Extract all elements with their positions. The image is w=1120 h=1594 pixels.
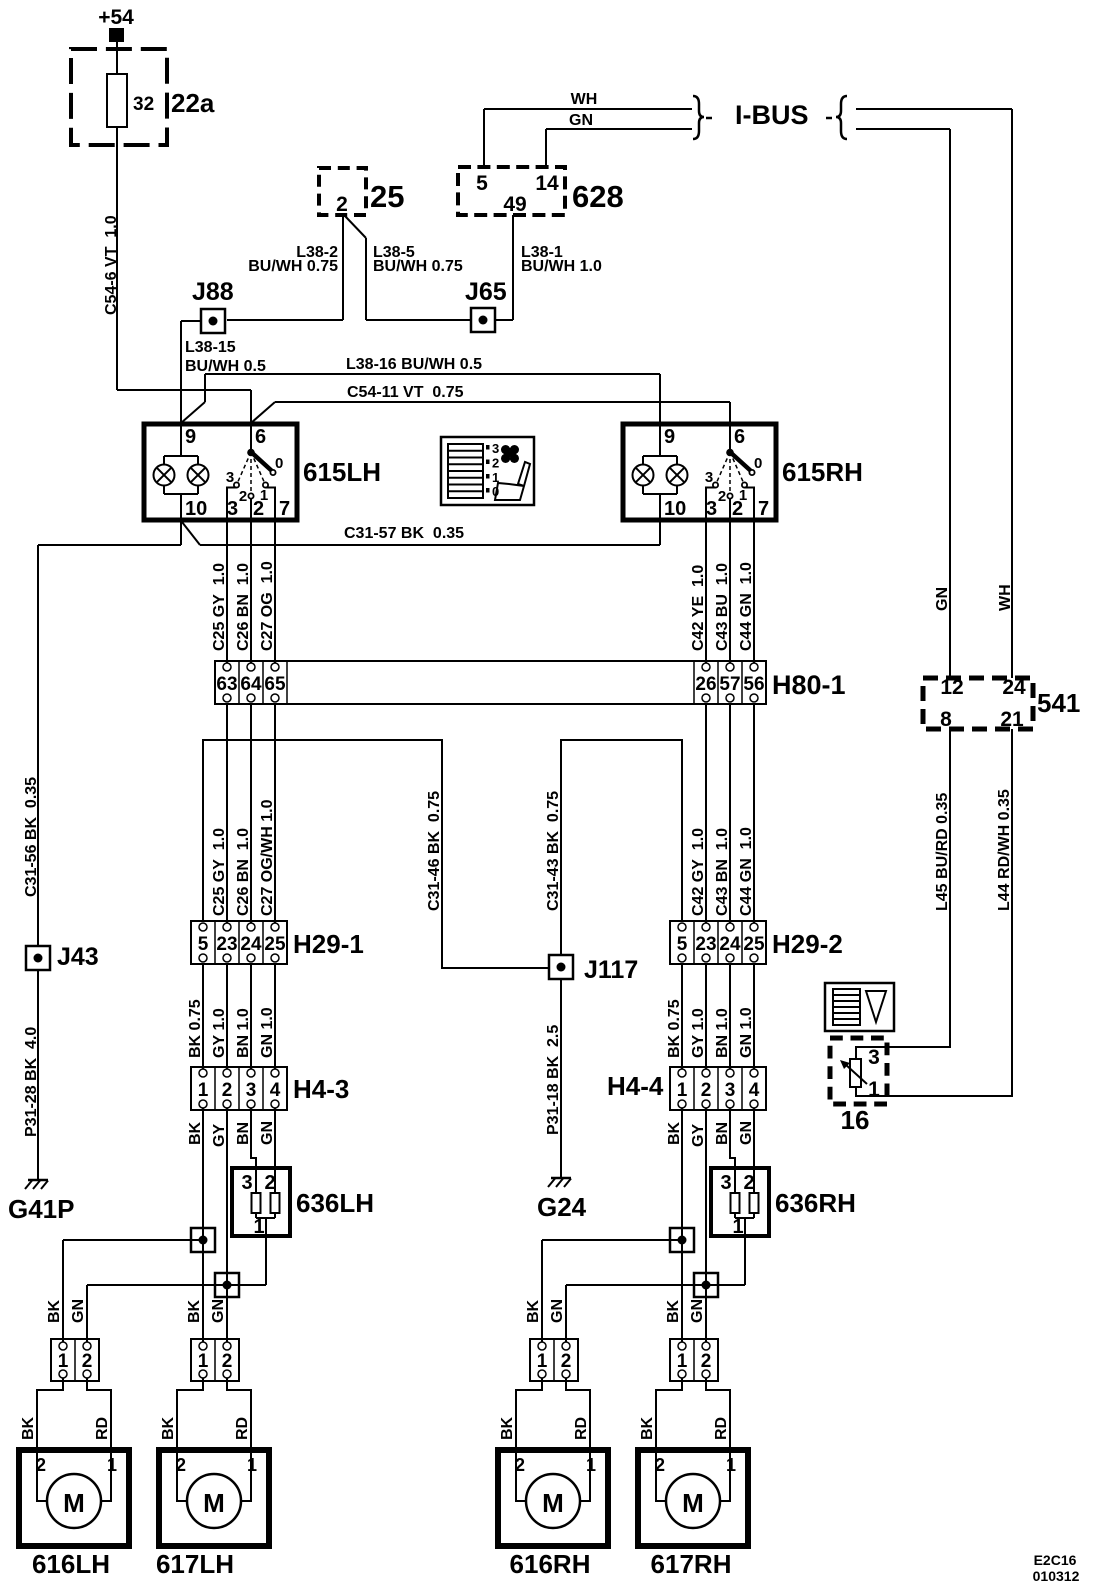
- svg-text:2: 2: [82, 1351, 93, 1372]
- rheostat sensor 16 (dashed box, pins 3 and 1): [830, 1038, 887, 1135]
- svg-text:2: 2: [701, 1351, 712, 1372]
- junction J43: [26, 943, 99, 971]
- connector H4-3 (pins 1 2 3 4): [191, 1067, 349, 1110]
- svg-text:L38-15: L38-15: [185, 339, 236, 356]
- svg-text:3: 3: [246, 1080, 257, 1101]
- svg-text:BN: BN: [235, 1122, 252, 1145]
- connector H80-1 (pins 63 64 65 / 26 57 56): [215, 661, 846, 704]
- svg-text:C26 BN 1.0: C26 BN 1.0: [235, 563, 252, 651]
- svg-text:RD: RD: [573, 1417, 590, 1440]
- svg-text:10: 10: [185, 498, 207, 520]
- wire BN from H4 pin 3 to 636RH pin 3: [730, 1108, 735, 1193]
- svg-text:3: 3: [492, 441, 499, 456]
- svg-text:GY 1.0: GY 1.0: [211, 1008, 228, 1058]
- svg-text:617RH: 617RH: [651, 1549, 732, 1579]
- wire C27 OG 1.0 from 615LH pin 7 to H80-1 pin 65: [259, 520, 276, 663]
- svg-text:P31-18 BK 2.5: P31-18 BK 2.5: [545, 1025, 562, 1135]
- ground G24: [537, 1178, 587, 1222]
- connector H29-1 (pins 5 23 24 25): [191, 921, 364, 964]
- wire C31-43 BK 0.75 from J117 to H29-2 pin 5: [545, 740, 682, 954]
- wire GY 1.0 from H29-2 to H4-4 (x=706): [690, 964, 707, 1069]
- svg-text:0: 0: [275, 455, 283, 472]
- svg-text:3: 3: [226, 469, 234, 486]
- svg-text:24: 24: [240, 934, 262, 955]
- svg-text:6: 6: [255, 426, 266, 448]
- svg-text:1: 1: [537, 1351, 548, 1372]
- svg-text:M: M: [203, 1488, 225, 1518]
- svg-text:I-BUS: I-BUS: [735, 100, 809, 130]
- svg-text:H4-4: H4-4: [607, 1071, 664, 1101]
- wire RD from connector to motor 617RH terminal 1: [706, 1378, 730, 1501]
- wire C31-56 BK 0.35 from 615LH pin 10 to J43: [23, 520, 181, 946]
- wire C26 BN 1.0 from 615LH pin 2 to H80-1 pin 64: [235, 520, 252, 663]
- lamps inside 615RH (pins 9-10): [633, 424, 688, 520]
- svg-text:3: 3: [725, 1080, 736, 1101]
- svg-text:BU/WH 0.75: BU/WH 0.75: [373, 258, 463, 275]
- svg-text:49: 49: [503, 193, 526, 216]
- svg-text:GN: GN: [689, 1299, 706, 1323]
- svg-text:J43: J43: [57, 943, 99, 971]
- ground G41P: [8, 1180, 75, 1224]
- seat fan motor 617RH: [638, 1450, 748, 1546]
- svg-text:10: 10: [664, 498, 686, 520]
- connector above motor 616RH (pins 1 2): [530, 1339, 578, 1381]
- labels BK GN above 616LH connector: [46, 1299, 87, 1323]
- heated seat switch 615LH: [144, 424, 297, 520]
- wire P31-18 BK 2.5 from J117 to ground G24: [545, 980, 562, 1177]
- svg-text:BK: BK: [186, 1299, 203, 1323]
- connector 25 (dashed box, pin 2): [319, 168, 404, 216]
- labels BK GN above 617LH connector: [186, 1299, 227, 1323]
- svg-text:3: 3: [868, 1046, 880, 1069]
- wire BN from H4 pin 3 to 636LH pin 3: [251, 1108, 256, 1193]
- icon module (level bars and triangle) above 16: [825, 983, 894, 1031]
- wire C31-57 BK 0.35 linking 615LH pin 10 and 615RH pin 10: [182, 520, 660, 545]
- svg-text:BN: BN: [714, 1122, 731, 1145]
- labels BK GN above 617RH connector: [665, 1299, 706, 1323]
- svg-text:BK: BK: [499, 1416, 516, 1440]
- svg-text:1: 1: [732, 1216, 743, 1238]
- svg-text:1: 1: [198, 1080, 209, 1101]
- svg-text:C43 BU 1.0: C43 BU 1.0: [714, 563, 731, 651]
- wire L38-2 BU/WH 0.75 from J88 to 25 pin 2: [227, 215, 343, 320]
- svg-text:1: 1: [253, 1216, 264, 1238]
- rotary switch inside 615RH (pin 6, positions 0-1-2-3): [705, 424, 763, 520]
- svg-text:2: 2: [36, 1455, 46, 1475]
- wire L38-15 BU/WH 0.5 from J88 to 615LH pin 9: [181, 321, 266, 424]
- svg-text:GY: GY: [211, 1124, 228, 1147]
- svg-text:2: 2: [336, 193, 348, 216]
- wire P31-28 BK 4.0 from J43 to ground G41P: [23, 970, 40, 1179]
- wire WH from 628 pin 5 to I-BUS: [484, 91, 692, 167]
- svg-text:+54: +54: [98, 6, 134, 29]
- svg-text:M: M: [682, 1488, 704, 1518]
- svg-text:BU/WH 0.5: BU/WH 0.5: [185, 358, 266, 375]
- svg-text:L45 BU/RD 0.35: L45 BU/RD 0.35: [934, 793, 951, 911]
- wire C43 BU 1.0 from 615RH pin 2 to H80-1 pin 57: [714, 520, 731, 663]
- svg-text:616RH: 616RH: [510, 1549, 591, 1579]
- svg-text:GN: GN: [549, 1299, 566, 1323]
- svg-text:BK: BK: [187, 1121, 204, 1145]
- svg-text:WH: WH: [571, 91, 598, 108]
- svg-text:2: 2: [718, 488, 726, 505]
- svg-text:H4-3: H4-3: [293, 1074, 349, 1104]
- wire C25 GY 1.0 from H80-1 pin 63 to H29-1 pin 23: [211, 704, 228, 923]
- connector above motor 617RH (pins 1 2): [670, 1339, 718, 1381]
- wire C25 GY 1.0 from 615LH pin 3 to H80-1 pin 63: [211, 520, 228, 663]
- svg-text:GN 1.0: GN 1.0: [738, 1007, 755, 1058]
- wire RD from connector to motor 617LH terminal 1: [227, 1378, 251, 1501]
- svg-text:5: 5: [198, 934, 209, 955]
- svg-text:1: 1: [586, 1455, 596, 1475]
- svg-text:1: 1: [107, 1455, 117, 1475]
- svg-text:2: 2: [264, 1172, 275, 1194]
- seat heating pad 636RH (pins 3 2 1, two elements): [711, 1168, 856, 1238]
- junction J117: [549, 955, 638, 984]
- svg-text:1: 1: [260, 487, 268, 504]
- lamps inside 615LH (pins 9-10): [154, 424, 209, 520]
- svg-text:3: 3: [706, 498, 717, 520]
- svg-text:2: 2: [701, 1080, 712, 1101]
- svg-text:636RH: 636RH: [775, 1188, 856, 1218]
- svg-text:65: 65: [264, 674, 286, 695]
- svg-text:GN: GN: [259, 1121, 276, 1145]
- svg-text:GN 1.0: GN 1.0: [259, 1007, 276, 1058]
- seat heating pad 636LH (pins 3 2 1, two elements): [232, 1168, 374, 1238]
- wire BK 0.75 from H29-2 to H4-4 (x=682): [666, 964, 683, 1069]
- wire BK from H4-4 pin 1 down to 617RH pin 1: [681, 1108, 683, 1342]
- seat fan motor 616LH: [19, 1450, 129, 1546]
- labels BK GY BN GN under H4-3: [187, 1121, 276, 1147]
- svg-text:BK 0.75: BK 0.75: [666, 999, 683, 1058]
- wire C42 YE 1.0 from 615RH pin 3 to H80-1 pin 26: [690, 520, 707, 663]
- connector H4-4 (pins 1 2 3 4): [607, 1067, 766, 1110]
- svg-text:26: 26: [695, 674, 716, 695]
- svg-text:23: 23: [216, 934, 237, 955]
- svg-text:BK: BK: [46, 1299, 63, 1323]
- svg-text:GY 1.0: GY 1.0: [690, 1008, 707, 1058]
- svg-text:64: 64: [240, 674, 262, 695]
- svg-text:3: 3: [227, 498, 238, 520]
- svg-text:H29-2: H29-2: [772, 929, 843, 959]
- wire GN from I-BUS to 541 pin 12: [856, 129, 951, 678]
- svg-text:3: 3: [705, 469, 713, 486]
- wire GN down to 616LH pin 2: [86, 1285, 88, 1342]
- connector above motor 616LH (pins 1 2): [51, 1339, 99, 1381]
- wire BK from connector to motor 616LH terminal 2: [20, 1378, 63, 1501]
- svg-text:636LH: 636LH: [296, 1188, 374, 1218]
- svg-text:BU/WH 1.0: BU/WH 1.0: [521, 258, 602, 275]
- svg-text:1: 1: [726, 1455, 736, 1475]
- wire GY from H4-3 pin 2 down to 617LH pin 2: [226, 1108, 228, 1342]
- svg-text:1: 1: [58, 1351, 69, 1372]
- svg-text:BK: BK: [160, 1416, 177, 1440]
- svg-text:C31-46 BK 0.75: C31-46 BK 0.75: [426, 791, 443, 911]
- junction J65: [465, 278, 507, 332]
- svg-text:1: 1: [739, 487, 747, 504]
- svg-text:32: 32: [133, 94, 154, 115]
- svg-text:G24: G24: [537, 1192, 587, 1222]
- svg-text:2: 2: [176, 1455, 186, 1475]
- svg-text:L38-16 BU/WH 0.5: L38-16 BU/WH 0.5: [346, 356, 482, 373]
- wire C42 GY 1.0 from H80-1 pin 26 to H29-2 pin 23: [690, 704, 707, 923]
- svg-text:2: 2: [222, 1080, 233, 1101]
- svg-text:617LH: 617LH: [156, 1549, 234, 1579]
- svg-text:C44 GN 1.0: C44 GN 1.0: [738, 562, 755, 651]
- svg-text:22a: 22a: [171, 88, 215, 118]
- svg-text:C31-57 BK 0.35: C31-57 BK 0.35: [344, 525, 464, 542]
- svg-text:BK: BK: [20, 1416, 37, 1440]
- junction GN row (right): [566, 1273, 745, 1297]
- svg-text:GN: GN: [70, 1299, 87, 1323]
- connector 628 (dashed box, pins 5, 14, 49): [458, 167, 624, 216]
- svg-text:GN: GN: [738, 1121, 755, 1145]
- svg-text:RD: RD: [234, 1417, 251, 1440]
- svg-text:616LH: 616LH: [32, 1549, 110, 1579]
- svg-text:P31-28 BK 4.0: P31-28 BK 4.0: [23, 1027, 40, 1137]
- svg-text:25: 25: [264, 934, 286, 955]
- wire GY 1.0 from H29-1 to H4-3 (x=227): [211, 964, 228, 1069]
- connector 541 (dashed box, pins 12 24 / 8 21): [923, 676, 1080, 731]
- svg-text:J117: J117: [584, 956, 638, 984]
- heated seat switch 615RH: [623, 424, 776, 520]
- svg-text:C54-6 VT 1.0: C54-6 VT 1.0: [103, 215, 120, 315]
- svg-text:25: 25: [743, 934, 765, 955]
- svg-text:010312: 010312: [1033, 1568, 1080, 1584]
- svg-text:2: 2: [239, 488, 247, 505]
- junction BK row (left): [63, 1228, 215, 1252]
- heated seat switch icon (level bars, fan, seat): [441, 437, 534, 505]
- svg-text:H80-1: H80-1: [772, 670, 846, 700]
- svg-text:5: 5: [476, 172, 488, 195]
- svg-text:5: 5: [677, 934, 688, 955]
- labels BK GY BN GN under H4-4: [666, 1121, 755, 1147]
- svg-text:1: 1: [247, 1455, 257, 1475]
- svg-text:BU/WH 0.75: BU/WH 0.75: [248, 258, 338, 275]
- wire BK down to 616LH pin 1: [62, 1240, 64, 1342]
- svg-text:C27 OG 1.0: C27 OG 1.0: [259, 561, 276, 651]
- svg-text:21: 21: [1000, 708, 1024, 731]
- svg-text:BN 1.0: BN 1.0: [235, 1008, 252, 1058]
- svg-text:2: 2: [515, 1455, 525, 1475]
- svg-text:2: 2: [743, 1172, 754, 1194]
- svg-text:C42 GY 1.0: C42 GY 1.0: [690, 828, 707, 916]
- wire GN from H4 pin 4 to 636RH pin 2: [753, 1108, 755, 1193]
- wire L38-1 BU/WH 1.0 from 628 pin 49 to J65: [496, 215, 602, 320]
- svg-text:24: 24: [719, 934, 741, 955]
- svg-text:GY: GY: [690, 1124, 707, 1147]
- wire RD from connector to motor 616RH terminal 1: [566, 1378, 590, 1501]
- wire GN from 628 pin 14 to I-BUS: [546, 112, 692, 167]
- svg-text:BK: BK: [525, 1299, 542, 1323]
- wire RD from connector to motor 616LH terminal 1: [87, 1378, 111, 1501]
- svg-text:2: 2: [222, 1351, 233, 1372]
- wire C44 GN 1.0 from 615RH pin 7 to H80-1 pin 56: [738, 520, 755, 663]
- svg-text:GN: GN: [210, 1299, 227, 1323]
- wire C54-6 VT 1.0 from +54 through fuse to 615LH pin 6: [103, 42, 251, 424]
- svg-text:628: 628: [572, 179, 624, 214]
- svg-text:56: 56: [743, 674, 764, 695]
- svg-text:24: 24: [1002, 676, 1026, 699]
- wire GN down to 616RH pin 2: [565, 1285, 567, 1342]
- svg-text:C54-11 VT 0.75: C54-11 VT 0.75: [347, 384, 464, 401]
- svg-text:6: 6: [734, 426, 745, 448]
- wire L45 BU/RD 0.35 from 541 pin 8 to 16 pin 3: [856, 729, 951, 1059]
- svg-text:M: M: [542, 1488, 564, 1518]
- svg-text:57: 57: [719, 674, 740, 695]
- svg-text:M: M: [63, 1488, 85, 1518]
- svg-text:BK: BK: [639, 1416, 656, 1440]
- wire BK 0.75 from H29-1 to H4-3 (x=203): [187, 964, 204, 1069]
- svg-text:25: 25: [370, 179, 404, 214]
- rotary switch inside 615LH (pin 6, positions 0-1-2-3): [226, 424, 284, 520]
- wire BK from H4-3 pin 1 down to 617LH pin 1: [202, 1108, 204, 1342]
- svg-text:615LH: 615LH: [303, 457, 381, 487]
- svg-text:BK 0.75: BK 0.75: [187, 999, 204, 1058]
- svg-text:1: 1: [198, 1351, 209, 1372]
- wire from 636RH pin 1 down to GN junction: [744, 1218, 746, 1285]
- svg-text:4: 4: [749, 1080, 760, 1101]
- wire from 636LH pin 1 down to GN junction: [265, 1218, 267, 1285]
- svg-text:9: 9: [664, 426, 675, 448]
- svg-text:1: 1: [677, 1080, 688, 1101]
- junction J88: [192, 278, 234, 333]
- svg-text:L44 RD/WH 0.35: L44 RD/WH 0.35: [996, 789, 1013, 911]
- svg-text:BN 1.0: BN 1.0: [714, 1008, 731, 1058]
- svg-text:RD: RD: [94, 1417, 111, 1440]
- connector above motor 617LH (pins 1 2): [191, 1339, 239, 1381]
- wire BN 1.0 from H29-1 to H4-3 (x=251): [235, 964, 252, 1069]
- svg-text:GN: GN: [569, 112, 593, 129]
- svg-text:0: 0: [754, 455, 762, 472]
- wire L38-16 BU/WH 0.5 linking 615LH pin 9 and 615RH pin 9: [181, 356, 660, 424]
- svg-text:RD: RD: [713, 1417, 730, 1440]
- svg-text:C25 GY 1.0: C25 GY 1.0: [211, 563, 228, 651]
- wire BK from connector to motor 617LH terminal 2: [160, 1378, 203, 1501]
- wire C31-46 BK 0.75 from H29-1 pin 5 to J117: [203, 740, 548, 968]
- svg-text:2: 2: [492, 456, 499, 471]
- svg-text:16: 16: [841, 1105, 870, 1135]
- connector H29-2 (pins 5 23 24 25): [670, 921, 843, 964]
- svg-text:G41P: G41P: [8, 1194, 75, 1224]
- svg-text:C31-43 BK 0.75: C31-43 BK 0.75: [545, 791, 562, 911]
- svg-text:12: 12: [940, 676, 963, 699]
- svg-text:541: 541: [1037, 688, 1080, 718]
- svg-text:J88: J88: [192, 278, 234, 306]
- wire WH from I-BUS to 541 pin 24: [856, 109, 1014, 678]
- wire BN 1.0 from H29-2 to H4-4 (x=730): [714, 964, 731, 1069]
- svg-text:4: 4: [270, 1080, 281, 1101]
- svg-text:615RH: 615RH: [782, 457, 863, 487]
- wire C44 GN 1.0 from H80-1 pin 56 to H29-2 pin 25: [738, 704, 755, 923]
- svg-text:C26 BN 1.0: C26 BN 1.0: [235, 828, 252, 916]
- junction BK row (right): [542, 1228, 694, 1252]
- svg-text:23: 23: [695, 934, 716, 955]
- wire GN 1.0 from H29-2 to H4-4 (x=754): [738, 964, 755, 1069]
- node +54 supply terminal: [98, 6, 134, 42]
- svg-text:8: 8: [940, 708, 952, 731]
- svg-text:63: 63: [216, 674, 237, 695]
- wire BK down to 616RH pin 1: [541, 1240, 543, 1342]
- svg-text:C43 BN 1.0: C43 BN 1.0: [714, 828, 731, 916]
- svg-text:7: 7: [279, 498, 290, 520]
- svg-text:WH: WH: [997, 584, 1014, 611]
- wire C43 BN 1.0 from H80-1 pin 57 to H29-2 pin 24: [714, 704, 731, 923]
- svg-text:2: 2: [561, 1351, 572, 1372]
- wire GY from H4-4 pin 2 down to 617RH pin 2: [705, 1108, 707, 1342]
- wire GN 1.0 from H29-1 to H4-3 (x=275): [259, 964, 276, 1069]
- fuse 22a (fuse 32): [71, 49, 215, 145]
- svg-text:J65: J65: [465, 278, 507, 306]
- wire C54-11 VT 0.75 linking 615LH pin 6 and 615RH pin 6: [251, 384, 730, 424]
- net I-BUS (braces and label): [693, 96, 847, 139]
- svg-text:3: 3: [720, 1172, 731, 1194]
- wire BK from connector to motor 616RH terminal 2: [499, 1378, 542, 1501]
- wire GN from H4 pin 4 to 636LH pin 2: [274, 1108, 276, 1193]
- seat fan motor 617LH: [159, 1450, 269, 1546]
- svg-text:C27 OG/WH 1.0: C27 OG/WH 1.0: [259, 799, 276, 916]
- svg-text:3: 3: [241, 1172, 252, 1194]
- svg-text:GN: GN: [934, 587, 951, 611]
- svg-text:C25 GY 1.0: C25 GY 1.0: [211, 828, 228, 916]
- svg-text:C31-56 BK 0.35: C31-56 BK 0.35: [23, 777, 40, 897]
- svg-text:9: 9: [185, 426, 196, 448]
- svg-text:7: 7: [758, 498, 769, 520]
- svg-text:H29-1: H29-1: [293, 929, 364, 959]
- svg-text:BK: BK: [665, 1299, 682, 1323]
- wire BK from connector to motor 617RH terminal 2: [639, 1378, 682, 1501]
- drawing number E2C16 010312: [1033, 1552, 1080, 1584]
- svg-text:C44 GN 1.0: C44 GN 1.0: [738, 827, 755, 916]
- svg-text:BK: BK: [666, 1121, 683, 1145]
- wire C26 BN 1.0 from H80-1 pin 64 to H29-1 pin 24: [235, 704, 252, 923]
- labels BK GN above 616RH connector: [525, 1299, 566, 1323]
- wire L44 RD/WH 0.35 from 541 pin 21 to 16 pin 1: [856, 729, 1013, 1096]
- svg-text:2: 2: [655, 1455, 665, 1475]
- svg-text:1: 1: [677, 1351, 688, 1372]
- wire C27 OG/WH 1.0 from H80-1 pin 65 to H29-1 pin 25: [259, 704, 276, 923]
- svg-text:C42 YE 1.0: C42 YE 1.0: [690, 565, 707, 651]
- svg-text:1: 1: [868, 1078, 880, 1101]
- svg-text:14: 14: [535, 172, 559, 195]
- wire L38-5 BU/WH 0.75 from 25 pin 2 to J65: [345, 216, 470, 320]
- svg-text:E2C16: E2C16: [1034, 1552, 1077, 1568]
- junction GN row (left): [87, 1273, 266, 1297]
- seat fan motor 616RH: [498, 1450, 608, 1546]
